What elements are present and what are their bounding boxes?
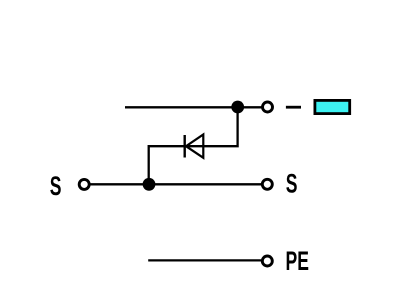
dash label xyxy=(286,106,301,109)
terminal circle middle left xyxy=(79,179,89,189)
svg-text:PE: PE xyxy=(286,245,309,276)
terminal circle bottom xyxy=(262,256,272,266)
svg-text:S: S xyxy=(50,170,62,201)
diode D1 cathode bar xyxy=(183,135,185,158)
wire bottom horizontal (PE) xyxy=(148,259,261,261)
junction node middle xyxy=(143,178,156,191)
junction node top xyxy=(231,101,244,114)
diode D1 triangle xyxy=(186,135,203,158)
svg-text:S: S xyxy=(286,168,298,199)
wire branch from top node through diode down to middle node xyxy=(149,107,238,184)
indicator block (cyan) xyxy=(315,100,350,113)
wire middle horizontal xyxy=(90,183,261,185)
terminal circle top xyxy=(263,102,273,112)
terminal circle middle right xyxy=(262,179,272,189)
wire top horizontal xyxy=(125,106,262,108)
